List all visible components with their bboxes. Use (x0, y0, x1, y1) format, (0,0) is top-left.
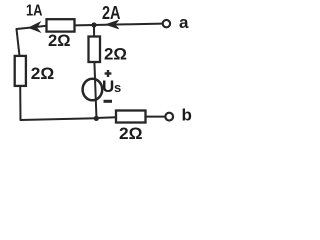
wire left vertical lower (19, 86, 21, 120)
wire top-right segment (resistor to node) (75, 24, 95, 26)
svg-text:2Ω: 2Ω (31, 64, 55, 83)
minus polarity mark (104, 100, 113, 103)
svg-text:U: U (102, 77, 114, 96)
svg-text:b: b (182, 106, 192, 125)
node junction bottom (94, 116, 99, 121)
wire bottom (corner to node) (21, 118, 97, 120)
svg-text:2Ω: 2Ω (48, 31, 71, 50)
resistor 2ohm top (body) (47, 19, 75, 50)
svg-text:1A: 1A (26, 3, 43, 20)
wire middle node to resistor (93, 25, 95, 37)
wire bottom (resistor to terminal b) (146, 116, 165, 118)
terminal a (open circle) (163, 13, 189, 32)
svg-text:2A: 2A (102, 3, 121, 23)
node junction top (91, 22, 96, 27)
resistor 2ohm middle (body) (89, 37, 128, 64)
voltage source Us (circle symbol) (83, 70, 122, 103)
svg-text:s: s (114, 80, 121, 95)
wire middle through source (94, 62, 96, 119)
wire left vertical (17, 29, 20, 56)
resistor 2ohm bottom (body) (116, 111, 146, 143)
current arrow 1A (arrowhead) (26, 3, 43, 32)
terminal b (open circle) (165, 106, 192, 125)
svg-text:a: a (179, 13, 189, 32)
current arrow 2A (arrowhead) (102, 3, 121, 29)
wire top-left segment (17, 26, 47, 29)
svg-text:2Ω: 2Ω (119, 124, 143, 143)
svg-text:2Ω: 2Ω (104, 45, 127, 64)
wire bottom (node to resistor) (96, 116, 116, 119)
wire node to terminal a (94, 24, 162, 25)
resistor 2ohm left (body) (15, 56, 55, 86)
plus polarity mark (105, 72, 112, 74)
